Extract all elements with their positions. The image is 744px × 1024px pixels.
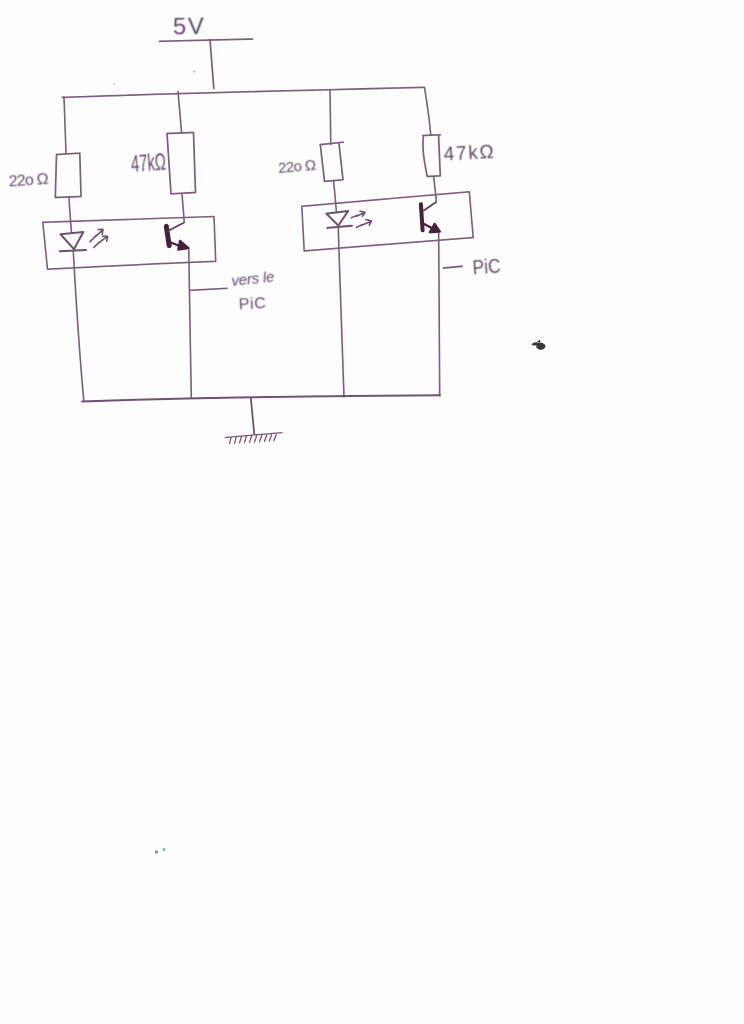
ground bus wire [82,395,440,401]
5V supply rail bar [160,39,253,41]
wire R4 to Q2 collector [434,177,437,202]
wire R3 to LED D2 [334,181,337,212]
resistor R4 body [423,135,441,177]
svg-text:47kΩ: 47kΩ [130,149,167,178]
paper specks lower left [155,850,158,853]
wire bus end to R4 [425,88,431,135]
wire R1 to LED D1 [69,198,72,234]
paper speck near top [193,71,195,73]
stub to label vers le PIC [190,288,227,290]
svg-text:22o Ω: 22o Ω [8,171,49,191]
wire LED D2 cathode to ground bus [338,226,344,397]
LED D1 (emitter diode of U1) [60,232,86,251]
wire R2 to Q1 collector [182,194,184,223]
wire LED D1 cathode to ground bus [73,252,84,401]
resistor R3 body [320,142,343,181]
phototransistor Q2 emitter lead with arrow [422,223,440,232]
svg-text:vers le: vers le [231,269,276,290]
svg-text:5V: 5V [173,13,206,41]
stub to label PIC (right) [444,266,463,268]
svg-text:PiC: PiC [238,295,266,313]
phototransistor Q2 of U2 (base bar) [421,204,423,230]
LED D2 light arrows [352,211,372,227]
wire Q2 emitter to ground bus [439,233,440,396]
wire bus to R1 [64,97,66,153]
phototransistor Q2 collector lead [424,202,436,211]
svg-text:PiC: PiC [472,256,501,280]
svg-text:22o Ω: 22o Ω [277,157,316,177]
svg-text:47kΩ: 47kΩ [443,142,494,166]
LED D1 light arrows [90,229,108,247]
optocoupler U2 package outline [302,192,473,251]
ink blot speck [532,340,546,350]
wire 5V stem [210,40,214,89]
paper speck upper left [114,83,116,85]
resistor R1 body [55,153,81,197]
optocoupler U1 package outline [43,217,216,270]
wire top bus [62,87,424,97]
phototransistor Q1 emitter lead with arrow [169,241,189,250]
phototransistor Q1 collector lead [168,223,184,231]
wire bus to R2 [178,92,182,133]
ground stem [251,398,255,435]
phototransistor Q1 of U1 (base bar) [166,226,169,245]
wire Q1 emitter to ground bus [189,250,192,398]
resistor R2 body [167,133,196,194]
ground symbol hatching [225,433,282,444]
LED D2 (emitter diode of U2) [326,211,352,228]
wire bus to R3 [329,90,332,145]
